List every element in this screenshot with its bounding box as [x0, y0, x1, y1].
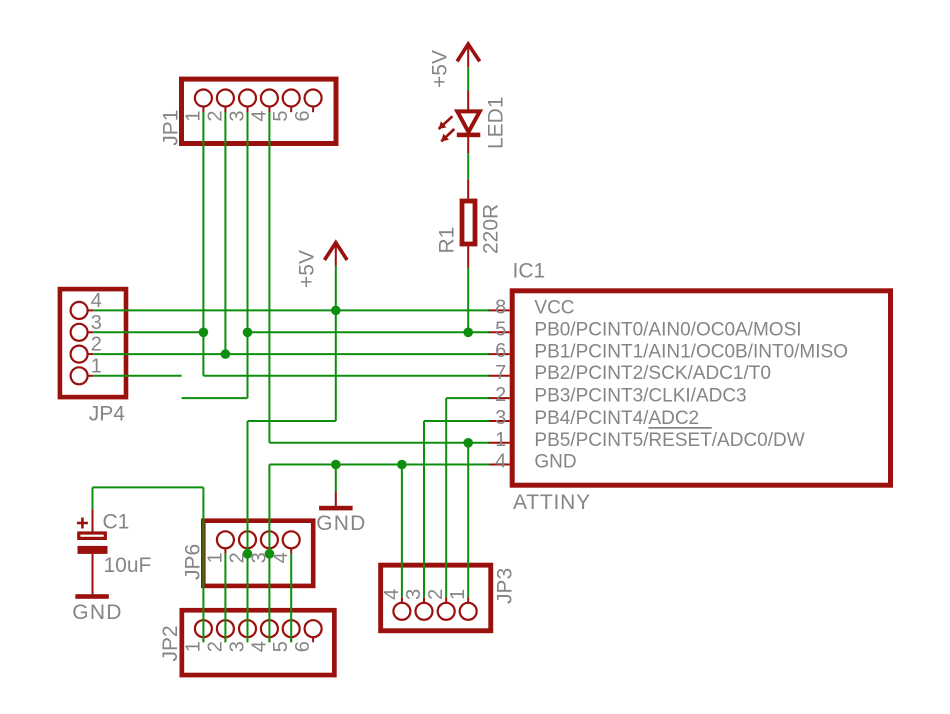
svg-text:GND: GND — [316, 512, 366, 535]
svg-text:4: 4 — [248, 641, 270, 652]
svg-text:1: 1 — [495, 429, 506, 451]
svg-text:PB5/PCINT5/RESET/ADC0/DW: PB5/PCINT5/RESET/ADC0/DW — [534, 430, 804, 451]
svg-text:7: 7 — [495, 362, 506, 384]
svg-text:ATTINY: ATTINY — [513, 491, 591, 514]
svg-text:LED1: LED1 — [484, 96, 507, 149]
svg-text:6: 6 — [495, 340, 506, 362]
svg-text:JP1: JP1 — [160, 110, 183, 146]
svg-text:PB1/PCINT1/AIN1/OC0B/INT0/MISO: PB1/PCINT1/AIN1/OC0B/INT0/MISO — [534, 341, 848, 362]
svg-text:1: 1 — [182, 110, 204, 121]
svg-text:1: 1 — [447, 589, 469, 600]
svg-text:2: 2 — [227, 552, 249, 563]
svg-text:2: 2 — [495, 384, 506, 406]
svg-text:2: 2 — [91, 334, 102, 356]
svg-text:C1: C1 — [103, 511, 130, 534]
svg-text:VCC: VCC — [534, 298, 574, 319]
svg-text:GND: GND — [72, 601, 122, 624]
svg-text:4: 4 — [248, 110, 270, 121]
svg-text:10uF: 10uF — [104, 554, 152, 577]
svg-text:PB4/PCINT4/ADC2: PB4/PCINT4/ADC2 — [534, 408, 699, 429]
svg-text:JP6: JP6 — [182, 544, 205, 580]
svg-text:3: 3 — [227, 641, 249, 652]
svg-text:3: 3 — [91, 312, 102, 334]
svg-text:5: 5 — [270, 641, 292, 652]
svg-text:+5V: +5V — [429, 50, 452, 88]
svg-text:2: 2 — [425, 589, 447, 600]
svg-text:6: 6 — [292, 110, 314, 121]
svg-text:IC1: IC1 — [513, 260, 546, 283]
svg-text:4: 4 — [91, 290, 102, 312]
svg-text:4: 4 — [270, 552, 292, 563]
svg-text:PB3/PCINT3/CLKI/ADC3: PB3/PCINT3/CLKI/ADC3 — [534, 385, 746, 406]
svg-text:2: 2 — [204, 110, 226, 121]
svg-text:JP3: JP3 — [494, 568, 517, 604]
svg-text:1: 1 — [182, 641, 204, 652]
svg-text:8: 8 — [495, 296, 506, 318]
svg-text:GND: GND — [534, 452, 576, 473]
svg-text:PB2/PCINT2/SCK/ADC1/T0: PB2/PCINT2/SCK/ADC1/T0 — [534, 363, 771, 384]
svg-text:R1: R1 — [436, 227, 459, 254]
svg-text:3: 3 — [248, 552, 270, 563]
svg-text:JP4: JP4 — [89, 402, 126, 425]
svg-text:3: 3 — [403, 589, 425, 600]
svg-text:4: 4 — [495, 451, 506, 473]
svg-text:1: 1 — [91, 355, 102, 377]
svg-text:6: 6 — [292, 641, 314, 652]
svg-text:2: 2 — [204, 641, 226, 652]
svg-text:3: 3 — [227, 110, 249, 121]
svg-text:1: 1 — [204, 552, 226, 563]
svg-text:5: 5 — [495, 318, 506, 340]
svg-text:3: 3 — [495, 407, 506, 429]
svg-text:5: 5 — [270, 110, 292, 121]
svg-text:220R: 220R — [480, 204, 503, 254]
svg-text:JP2: JP2 — [159, 625, 182, 661]
svg-text:PB0/PCINT0/AIN0/OC0A/MOSI: PB0/PCINT0/AIN0/OC0A/MOSI — [534, 320, 801, 341]
svg-text:+5V: +5V — [295, 250, 318, 288]
svg-text:4: 4 — [381, 589, 403, 600]
